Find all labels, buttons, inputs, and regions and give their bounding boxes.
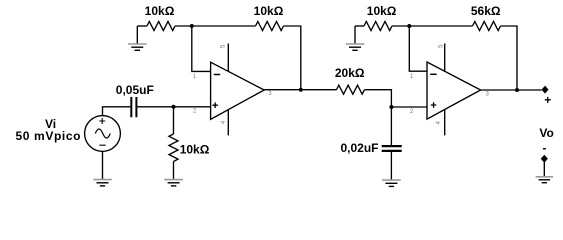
- node J1: [190, 24, 194, 28]
- node J2: [299, 88, 303, 92]
- wire J3 down to U2 inverting input: [409, 26, 427, 71]
- resistor R5 20k: [337, 85, 365, 94]
- svg-text:10kΩ: 10kΩ: [254, 4, 284, 18]
- wire R6 to ground G4: [173, 162, 175, 180]
- wire R2 to corner down to node J2: [284, 26, 301, 90]
- svg-text:-: -: [542, 141, 546, 155]
- svg-text:50 mVpico: 50 mVpico: [16, 129, 81, 143]
- wire J6 to U2 non-inverting input: [391, 106, 427, 108]
- wire J4 to output terminal: [517, 89, 542, 91]
- ground G4: [164, 180, 183, 186]
- wire R3 to node J3: [392, 25, 409, 27]
- svg-text:10kΩ: 10kΩ: [367, 4, 397, 18]
- ground G6: [536, 177, 553, 183]
- wire U2 output to node J4: [481, 89, 517, 91]
- node J6: [389, 105, 393, 109]
- U2 bottom power pin: [444, 110, 446, 136]
- terminal diamond D2: [541, 155, 548, 163]
- ground G5: [382, 180, 401, 186]
- terminal diamond D1: [542, 86, 549, 94]
- wire C1 to node J5: [137, 106, 173, 108]
- U1 bottom power pin: [227, 110, 229, 136]
- resistor R6 (vertical): [169, 134, 178, 162]
- wire C2 to ground G5: [390, 151, 392, 180]
- resistor R4 56k: [473, 22, 501, 31]
- wire R1 to node J1: [175, 25, 192, 27]
- svg-text:56kΩ: 56kΩ: [471, 4, 501, 18]
- resistor R1: [147, 22, 175, 31]
- capacitor C2: [382, 146, 402, 151]
- node J3: [407, 24, 411, 28]
- node J4: [515, 88, 519, 92]
- resistor R3: [364, 22, 392, 31]
- wire R4 corner down to node J4: [501, 26, 518, 90]
- op-amp U2: [427, 62, 481, 119]
- wire G2 to R3: [355, 25, 364, 27]
- node J5: [172, 105, 176, 109]
- ground G2 (top middle): [346, 26, 365, 50]
- svg-text:Vo: Vo: [539, 126, 553, 140]
- wire J5 down to R6: [173, 107, 175, 134]
- U1 top power pin: [227, 44, 229, 72]
- resistor R2: [256, 22, 284, 31]
- wire U1 output to node J2: [264, 89, 301, 91]
- wire J1 to R2: [192, 25, 256, 27]
- svg-text:0,02uF: 0,02uF: [340, 141, 378, 155]
- svg-text:10kΩ: 10kΩ: [180, 142, 210, 156]
- op-amp U1: [211, 62, 265, 119]
- ground G3: [93, 180, 112, 186]
- capacitor C1: [131, 97, 136, 117]
- wire G1 to R1: [137, 25, 147, 27]
- source V1: [85, 116, 121, 152]
- wire J1 down to U1 inverting input: [192, 26, 211, 71]
- svg-text:20kΩ: 20kΩ: [335, 66, 365, 80]
- U2 top power pin: [444, 44, 446, 72]
- svg-text:0,05uF: 0,05uF: [116, 83, 154, 97]
- ground G1 (top left): [128, 26, 147, 50]
- wire source top to C1: [103, 107, 131, 116]
- svg-text:10kΩ: 10kΩ: [145, 4, 175, 18]
- svg-text:+: +: [544, 93, 551, 107]
- wire D2 to ground G6: [543, 162, 545, 177]
- wire R5 corner down to C2: [365, 90, 392, 146]
- wire J5 to U1 non-inverting input: [174, 106, 211, 108]
- wire J2 to R5: [301, 89, 337, 91]
- wire source bottom to ground G3: [102, 151, 104, 179]
- wire J3 to R4: [409, 25, 472, 27]
